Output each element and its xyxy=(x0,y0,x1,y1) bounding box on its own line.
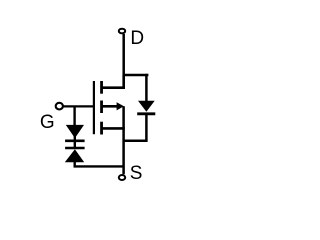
MOSFET Q1 channel segment drain xyxy=(100,81,103,94)
wire gate xyxy=(64,105,95,107)
body diode branch vertical top xyxy=(145,74,148,102)
MOSFET Q1 channel segment source xyxy=(100,122,103,135)
body diode D1 cathode bar xyxy=(137,112,155,115)
body diode D1 triangle xyxy=(138,101,155,112)
terminal D circle xyxy=(119,29,125,34)
svg-text:D: D xyxy=(130,28,144,49)
wire D vertical xyxy=(122,34,125,76)
wire zener bottom to source node xyxy=(75,161,124,166)
wire drain lead to MOSFET xyxy=(102,75,124,88)
zener branch vertical xyxy=(73,106,75,126)
terminal S circle xyxy=(119,175,125,180)
zener diode Z2 cathode bar xyxy=(65,147,85,150)
MOSFET Q1 body arrow xyxy=(117,102,124,110)
wire drain top branch xyxy=(123,74,149,77)
zener diode Z1 triangle xyxy=(66,125,84,138)
wire between zener cathodes xyxy=(74,136,76,149)
wire body diode bottom xyxy=(124,114,147,141)
svg-text:S: S xyxy=(130,163,143,184)
wire right vertical to S xyxy=(122,106,125,174)
zener diode Z1 cathode bar xyxy=(65,140,85,143)
terminal G circle xyxy=(56,103,63,110)
MOSFET Q1 body lead xyxy=(102,105,118,108)
MOSFET Q1 channel segment body xyxy=(100,101,103,114)
zener diode Z2 triangle xyxy=(65,149,84,162)
MOSFET Q1 gate line xyxy=(93,81,95,134)
svg-text:G: G xyxy=(40,112,55,133)
MOSFET Q1 source lead xyxy=(102,127,125,130)
